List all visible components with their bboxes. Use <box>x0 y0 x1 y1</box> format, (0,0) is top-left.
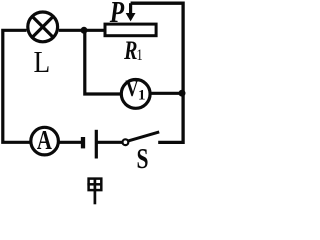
voltmeter V1 circle <box>121 80 150 109</box>
wire voltmeter to right side <box>150 92 182 95</box>
wire ammeter to battery <box>59 141 82 144</box>
battery long positive plate <box>95 130 98 159</box>
lamp X diagonal 2 <box>32 16 53 37</box>
svg-text:L: L <box>34 46 51 80</box>
slider arrow head <box>126 13 136 21</box>
svg-text:S: S <box>137 145 149 175</box>
label jia center vertical stroke <box>94 178 97 205</box>
ammeter A circle <box>31 127 59 155</box>
slider arrow shaft <box>129 3 132 14</box>
wire top: slider to right side down to switch stub <box>131 3 184 142</box>
battery short negative plate <box>81 137 85 148</box>
lamp L circle <box>28 12 58 42</box>
junction node dot right <box>179 90 186 97</box>
svg-text:A: A <box>37 127 53 156</box>
label jia middle horizontal stroke <box>87 183 102 186</box>
svg-text:1: 1 <box>138 87 146 103</box>
label jia box <box>89 179 102 191</box>
wire junction down to voltmeter <box>85 30 122 94</box>
rheostat R1 body rectangle <box>105 24 156 36</box>
lamp X diagonal 1 <box>32 16 53 37</box>
svg-text:1: 1 <box>136 47 142 65</box>
wire lamp to rheostat <box>59 29 105 32</box>
wire battery to switch <box>96 141 122 144</box>
svg-text:R: R <box>123 37 137 66</box>
junction node dot after lamp <box>81 27 88 34</box>
svg-text:P: P <box>109 0 124 29</box>
svg-text:V: V <box>125 75 138 102</box>
switch pivot circle <box>123 139 129 145</box>
wire left loop: top-left corner down left side to ammeter <box>3 30 30 142</box>
switch blade <box>128 132 159 141</box>
